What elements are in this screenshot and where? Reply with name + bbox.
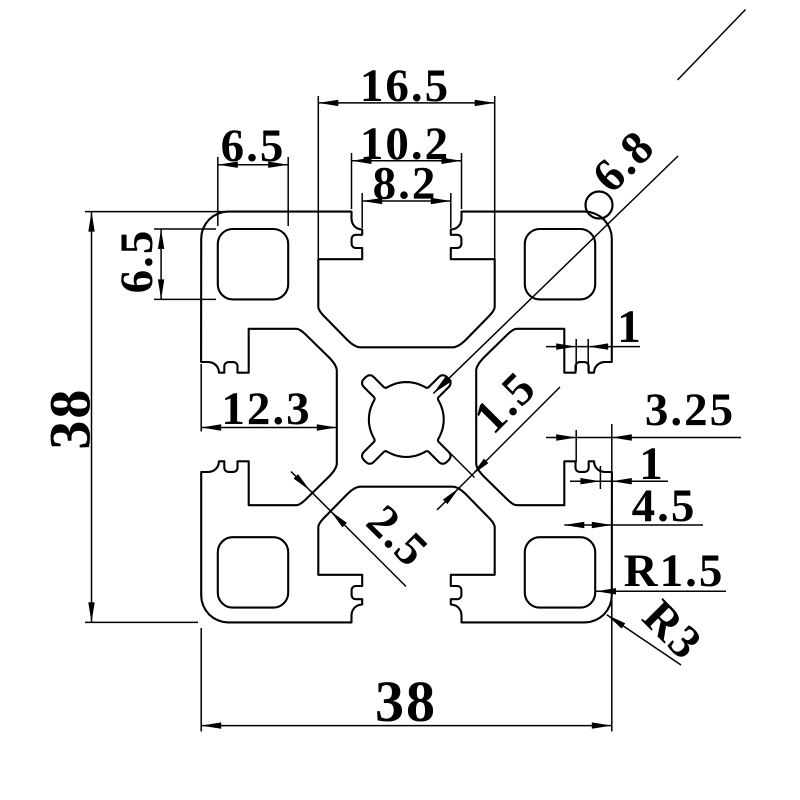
- dimension 3.25 (face to notch): [546, 384, 741, 462]
- dimension 38 vertical (overall height): [38, 212, 227, 623]
- dimension 8.2 (slot neck width): [362, 158, 451, 228]
- dimension 12.3 (face to centre boss): [201, 364, 337, 435]
- radius R3 leader (outer corner fillet): [607, 590, 713, 670]
- svg-text:8.2: 8.2: [373, 158, 438, 210]
- dimension 4.5 (slot depth): [564, 480, 703, 532]
- svg-text:16.5: 16.5: [360, 60, 450, 112]
- bottom-right corner screw hole: [525, 537, 595, 607]
- lobe tangent stub line: [449, 452, 475, 478]
- dimension 2.5 (south-west web thickness): [291, 472, 439, 587]
- face plane extension line across right mouth: [611, 424, 613, 492]
- dimension 1 (serration notch width, top right): [546, 301, 643, 371]
- svg-text:12.3: 12.3: [221, 383, 311, 435]
- top-left corner screw hole: [218, 229, 288, 299]
- profile outer outline with 4 T-slots: [201, 212, 612, 623]
- svg-text:1: 1: [617, 301, 643, 353]
- svg-text:6.5: 6.5: [221, 120, 286, 172]
- svg-text:3.25: 3.25: [645, 384, 735, 436]
- dimension 6.5 vertical (corner hole height): [111, 229, 216, 300]
- dimension 1.5 (lobe to web wall thickness): [437, 361, 560, 510]
- center bore clover hole: [362, 375, 450, 463]
- dimension 16.5 (slot cavity width), extension lines, arrows, text: [318, 60, 494, 259]
- svg-text:4.5: 4.5: [632, 480, 697, 532]
- dimension 6.5 horizontal (corner hole width): [218, 120, 288, 226]
- top-right corner screw hole: [525, 229, 595, 299]
- svg-text:38: 38: [38, 388, 103, 450]
- diameter 6.8 leader with phi symbol and text: [433, 10, 745, 394]
- dimension 1 (lip step depth, right side): [570, 438, 668, 490]
- bottom-left corner screw hole: [218, 537, 288, 607]
- svg-text:38: 38: [375, 669, 437, 734]
- radius R1.5 leader (corner hole fillet): [596, 545, 726, 597]
- dimension 10.2 (slot mouth width): [352, 118, 462, 209]
- dimension 38 horizontal (overall width): [201, 598, 612, 734]
- svg-text:6.5: 6.5: [111, 229, 163, 294]
- svg-text:R1.5: R1.5: [624, 545, 725, 597]
